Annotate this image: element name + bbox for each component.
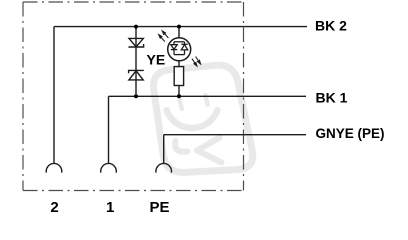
wire: terminal 1 vertical riser	[108, 96, 110, 163]
junction dot BK1/suppressor	[134, 94, 138, 98]
terminal socket contact PE	[156, 163, 172, 172]
svg-text:YE: YE	[147, 52, 166, 68]
Z-diode top (anode up)	[128, 38, 143, 47]
wire: terminal 2 vertical riser	[53, 27, 55, 164]
terminal socket contact 2	[46, 163, 62, 172]
svg-text:PE: PE	[150, 199, 170, 216]
svg-text:GNYE (PE): GNYE (PE)	[316, 126, 385, 141]
inner diode right (up)	[181, 43, 187, 45]
junction dot BK2/LED branch	[177, 25, 181, 29]
svg-text:1: 1	[106, 199, 114, 216]
wire: resistor bottom segment	[178, 86, 180, 97]
junction dot BK2/suppressor	[134, 25, 138, 29]
wire: suppressor branch vertical	[135, 27, 137, 97]
light arrows top-left (pointing away NW)	[159, 31, 169, 42]
wire: LED-resistor link	[178, 61, 180, 67]
wire: LED branch top segment	[178, 27, 180, 38]
wire: GNYE (PE) line	[164, 134, 306, 136]
svg-text:BK 2: BK 2	[315, 18, 347, 34]
wire: BK 1 middle line	[109, 95, 307, 97]
wire: BK 2 top line	[54, 26, 307, 28]
inner rails and bars	[173, 42, 175, 45]
faint background watermark (decorative)	[153, 65, 252, 172]
connector housing outline (dash-dot frame)	[23, 2, 244, 191]
svg-text:2: 2	[50, 199, 58, 216]
junction dot BK1/resistor	[177, 94, 181, 98]
light arrows bottom-right (pointing away SE)	[192, 57, 201, 67]
Z-diode bottom (anode down)	[129, 70, 144, 80]
terminal socket contact 1	[101, 163, 117, 172]
inner diode left (down)	[171, 45, 177, 50]
LED U1 (bipolar, yellow)	[168, 38, 191, 61]
wire: terminal PE vertical riser	[163, 135, 165, 164]
svg-text:BK 1: BK 1	[316, 89, 348, 105]
resistor	[174, 67, 183, 86]
